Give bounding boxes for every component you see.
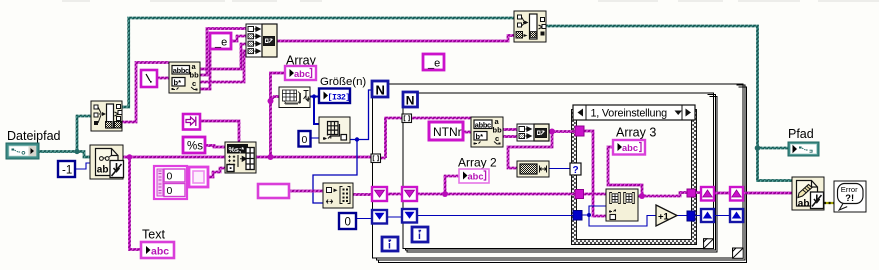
wire: string from Match Pattern to Search/Replace input a (122, 63, 169, 123)
wire: Replace Array Subset output to Array 3 and case out tunnel (608, 147, 687, 196)
inner for-loop shadow frames (405, 95, 717, 252)
svg-text:0: 0 (302, 134, 308, 146)
constant backslash-dot string (141, 70, 157, 87)
svg-text:N: N (406, 94, 415, 108)
svg-text:abbc: abbc (173, 66, 189, 75)
svg-text:Dateipfad: Dateipfad (7, 129, 61, 143)
wire: path from Match Pattern up to top rail into Build Path (122, 18, 514, 107)
outer loop auto-index tunnel (371, 154, 381, 163)
svg-text:ab: ab (97, 165, 109, 176)
inner for-loop frame (403, 93, 714, 249)
svg-text:c: c (495, 134, 499, 143)
case tunnel string out (687, 189, 696, 197)
function Concatenate Strings (246, 24, 277, 57)
svg-text:Array 3: Array 3 (616, 126, 656, 140)
svg-text:abc: abc (294, 69, 310, 79)
function Read From Text File (90, 145, 124, 179)
junction blue wire at N branch (355, 137, 359, 141)
junction array wire upper (268, 98, 274, 104)
function Match Pattern (91, 101, 122, 131)
case selector terminal (570, 163, 581, 176)
svg-text:-1: -1 (62, 165, 72, 177)
svg-text:NTNr: NTNr (433, 125, 462, 139)
function String Subset (323, 183, 353, 208)
cropped toolbar remnants top edge (62, 0, 879, 2)
wire: 0 constant into blue shift registers across loops to case (356, 216, 573, 219)
inner loop shift register right numeric (701, 209, 714, 222)
indicator Array string array (285, 66, 316, 80)
constant -1 (58, 161, 75, 177)
outer loop shift register right numeric (730, 209, 743, 222)
function Build Path (514, 11, 546, 42)
inner loop shift register left numeric (402, 209, 417, 223)
wire: NTNr constant into Search/Replace 2 (463, 131, 471, 134)
inner loop auto-index tunnel (402, 114, 412, 123)
svg-text:c: c (192, 79, 196, 88)
function Search and Replace String 2 (471, 117, 503, 147)
wire: end-of-line constant to Spreadsheet String to Array delimiter (200, 121, 239, 142)
svg-text:abc: abc (622, 143, 638, 153)
svg-text:%s: %s (187, 141, 203, 153)
wire: %s format string into Spreadsheet String to Array (205, 146, 225, 148)
function Index Array (319, 117, 350, 143)
wire: string from case through shift registers to Write File (695, 191, 792, 194)
outer loop i terminal (382, 237, 398, 252)
constant 0 for shift register (339, 213, 356, 229)
indicator Text string (141, 242, 174, 258)
svg-text:Pfad: Pfad (788, 127, 814, 141)
case tunnel numeric out (687, 211, 695, 221)
wire: case tunnel string down to Replace Array Subset element input (584, 131, 606, 216)
junction on path wire at Pfad branch (755, 145, 761, 151)
svg-text:?: ? (573, 165, 579, 176)
outer loop shift register left string (372, 187, 387, 201)
svg-text:Text: Text (142, 228, 165, 242)
inner loop shift register right string (701, 187, 714, 201)
wire: staircase string into inner loop tunnel and to Search/Replace 2 (380, 118, 471, 158)
indicator Pfad path (788, 142, 819, 156)
svg-text:b*: b* (174, 78, 182, 87)
wire: string rail into pink shift registers across loops to case (353, 176, 575, 195)
wires: Search/Replace outputs a, bb, c and _e to Concatenate inputs (200, 29, 246, 90)
svg-text:b*: b* (476, 132, 484, 141)
function Spreadsheet String To Array (225, 142, 256, 173)
indicator Array 2 string array (459, 169, 489, 183)
wire: empty string constant to String Subset icon (289, 190, 323, 193)
constant _e string (210, 33, 231, 49)
junction string wire at String Length branch (549, 129, 555, 135)
svg-text:_e: _e (427, 58, 440, 70)
wires: Search/Replace 2 outputs to Concatenate 2 (503, 130, 517, 137)
svg-text:abc: abc (468, 172, 484, 182)
svg-text:abbc: abbc (475, 120, 491, 129)
constant empty string array (258, 184, 289, 198)
constant empty string in cluster (189, 167, 208, 187)
inner for-loop fold corner (704, 239, 714, 249)
junction string wire at Array 3 branch (639, 193, 645, 199)
svg-text:Array 2: Array 2 (458, 156, 497, 170)
inner loop i terminal (412, 227, 428, 242)
wire: I32 array from Array Size to size indicator and Index Array (310, 97, 319, 125)
function increment +1 (656, 205, 677, 226)
function String Length (517, 161, 549, 177)
constant _e string 2 (423, 54, 444, 70)
svg-text:i: i (388, 240, 391, 252)
svg-text:+1: +1 (658, 212, 670, 223)
svg-text:1, Voreinstellung: 1, Voreinstellung (591, 107, 668, 119)
outer for-loop shadow frames (377, 85, 747, 262)
function Search and Replace String (169, 62, 200, 93)
wire: case tunnel string array into Replace Array Subset (583, 193, 606, 196)
indicator Größe(n) I32 (319, 89, 350, 104)
svg-text:_e: _e (214, 37, 227, 49)
wire: path from Build Path to right side, down to Pfad and Write File (546, 26, 792, 181)
function Concatenate Strings 2 (517, 124, 549, 141)
wire: string from Concatenate to Build Path (277, 36, 514, 42)
svg-text:abc: abc (151, 246, 169, 258)
junction string wire at Text branch (127, 154, 133, 160)
svg-text:[I32]: [I32] (328, 92, 350, 102)
junction blue wire inside case (587, 213, 591, 217)
junction array wire (268, 154, 274, 160)
svg-text:0: 0 (345, 217, 351, 229)
case tunnel string in upper (575, 126, 584, 136)
constant 0 for Index Array (299, 131, 311, 147)
wire: -1 constant into Read Text File (75, 163, 90, 169)
outer for-loop fold corner (733, 248, 744, 258)
function Write Characters To File (792, 177, 824, 210)
constant cluster 0,0 (154, 166, 187, 199)
wire: case blue tunnel to Replace Array Subset index and +1 (582, 206, 656, 226)
case tunnel string array in lower (575, 190, 584, 199)
wire: string from Read Text File to Spreadsheet String to Array and Text indicator (123, 157, 225, 250)
svg-text:Größe(n): Größe(n) (320, 76, 366, 88)
svg-text:ab: ab (798, 199, 810, 210)
constant End of Line (183, 114, 200, 130)
svg-text:i: i (418, 230, 421, 242)
outer loop shift register left numeric (372, 210, 387, 224)
svg-text:N: N (376, 83, 385, 98)
function Replace Array Subset (606, 189, 638, 221)
junction string rail at Array 2 (442, 191, 448, 197)
svg-text:0: 0 (167, 185, 173, 197)
outer for-loop frame (373, 84, 744, 258)
wire: 2D string array from Spreadsheet String to Array: to Array indicator, Array Size, loop tunnel (256, 73, 371, 157)
function Array Size (279, 87, 310, 108)
constant %s string (183, 137, 205, 153)
wire: String Length to case selector terminal (549, 168, 570, 170)
wire: path rail from Dateipfad to Read File and Match Pattern (39, 116, 91, 157)
wire: 0 constant to Index Array (310, 137, 319, 139)
outer loop N terminal (372, 81, 388, 98)
junction blue array wire (312, 94, 316, 98)
svg-text:0: 0 (167, 171, 173, 183)
case selector label bar (573, 105, 695, 120)
outer loop shift register right string (730, 187, 743, 201)
case structure border (572, 110, 697, 245)
inner loop N terminal (403, 92, 418, 108)
svg-text:%s;*: %s;* (229, 145, 245, 154)
control Dateipfad path (6, 143, 39, 159)
indicator Array 3 string array (613, 140, 645, 155)
wire: Index Array size to outer loop N terminal and String Subset icon (313, 90, 372, 203)
wire: string constant backslash to Search/Replace input (157, 77, 169, 80)
inner loop shift register left string (402, 187, 417, 201)
constant NTNr string (429, 122, 463, 140)
junction on path wire (74, 149, 79, 154)
wire: blue from +1 through case tunnel to shift registers (677, 215, 730, 217)
error cloud General Error Handler (834, 181, 866, 212)
wire: Concatenate 2 output to case tunnel and String Length (508, 132, 575, 169)
wire: error cluster from Write File to error cloud (824, 202, 834, 204)
wire: cluster type into Spreadsheet String to Array (207, 168, 225, 177)
svg-text:?!: ?! (845, 192, 854, 203)
case tunnel numeric in (573, 211, 582, 221)
